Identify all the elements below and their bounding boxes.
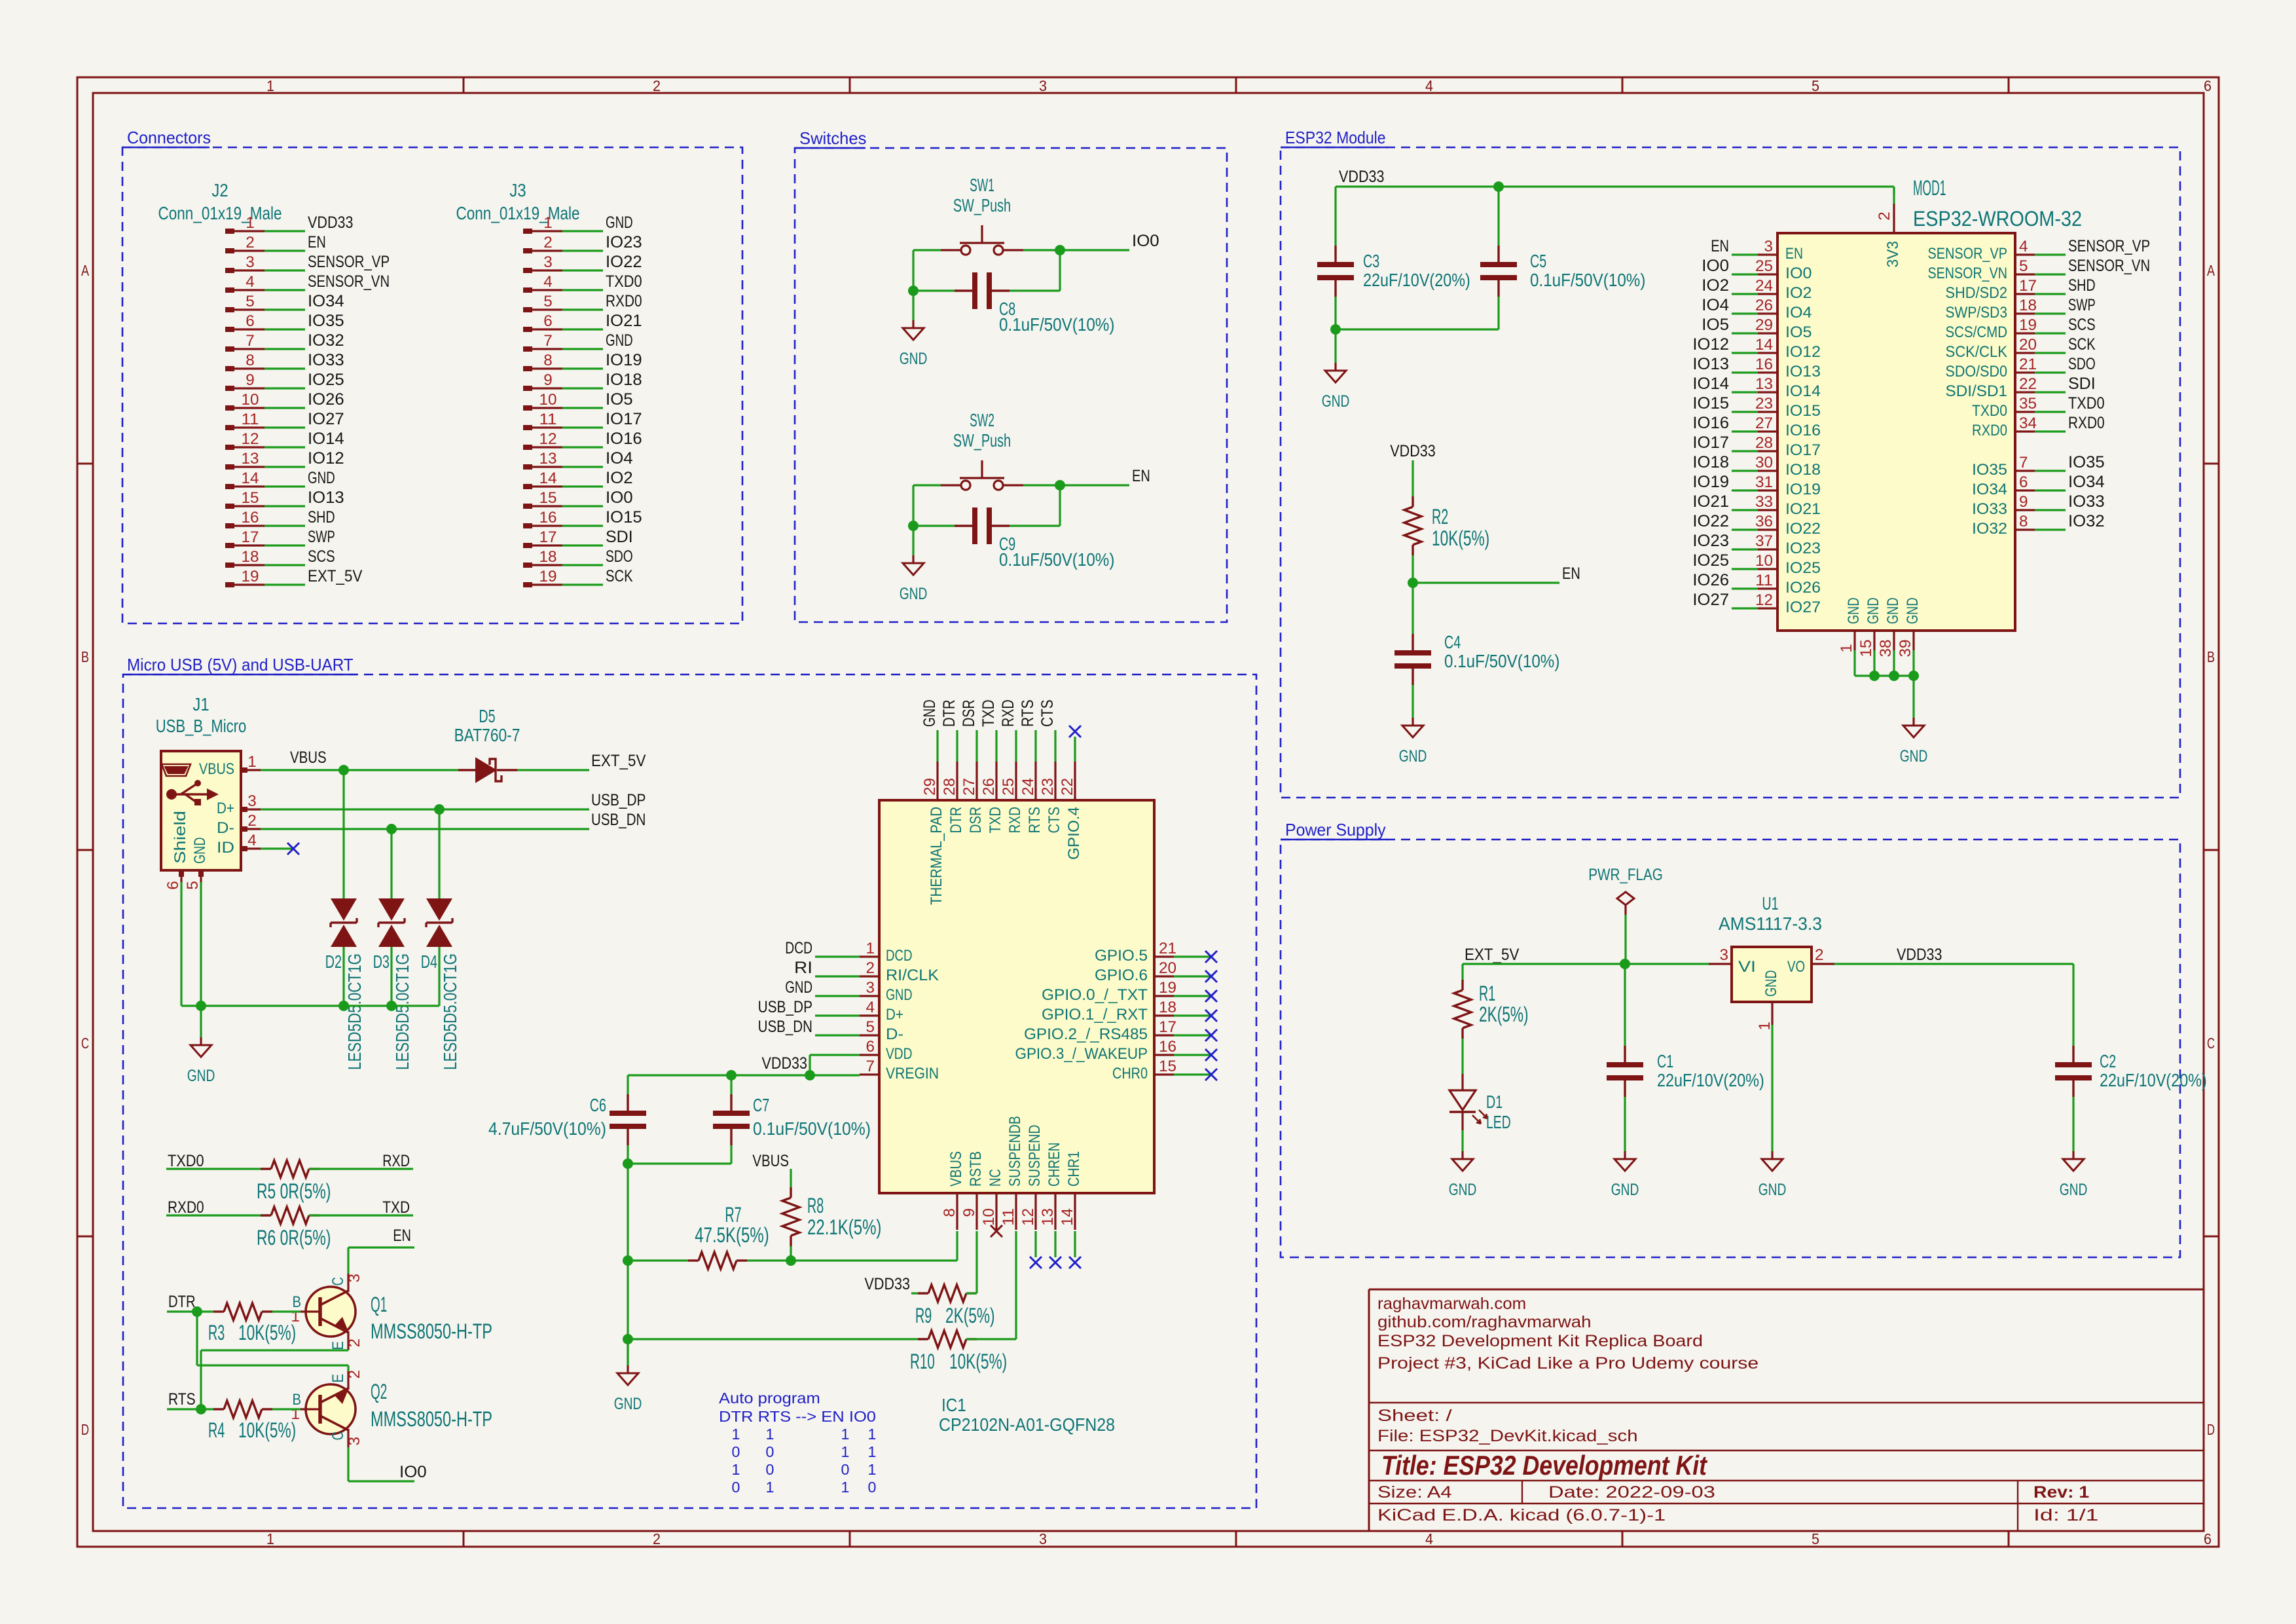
junction SW1 right — [1055, 245, 1065, 255]
wire/label RTS to IC1 pin 24 — [1019, 699, 1037, 762]
svg-text:IO14: IO14 — [308, 430, 344, 448]
wire/label SHD at MOD1 pin 17 — [2035, 276, 2096, 295]
IC1 bottom pin 12 SUSPEND — [1019, 1125, 1044, 1230]
ground GND (C2) — [2060, 1151, 2088, 1199]
wire/label TXD0 at MOD1 pin 35 — [2035, 394, 2105, 413]
svg-text:C6: C6 — [590, 1095, 606, 1115]
capacitor C3 22uF/10V(20%) — [1317, 246, 1470, 297]
svg-text:19: 19 — [242, 568, 259, 585]
ground GND (SW2) — [900, 555, 928, 603]
svg-text:Id: 1/1: Id: 1/1 — [2033, 1506, 2098, 1524]
svg-text:IO27: IO27 — [1785, 599, 1821, 616]
IC1 left pin 7 VREGIN — [860, 1058, 939, 1082]
net label IO27 at J2 pin 11 — [308, 410, 344, 428]
svg-text:15: 15 — [242, 489, 259, 507]
svg-text:GND: GND — [187, 1067, 215, 1085]
svg-text:Q2: Q2 — [371, 1380, 387, 1403]
wire R3 to Q1 base — [272, 1310, 301, 1312]
net label GND at J3 pin 7 — [606, 331, 633, 350]
wire J2 pin 3 to label SENSOR_VP — [264, 269, 305, 271]
svg-text:22uF/10V(20%): 22uF/10V(20%) — [1657, 1070, 1764, 1090]
svg-text:ID: ID — [217, 839, 234, 857]
junction SW2 right — [1055, 480, 1065, 490]
svg-text:IO34: IO34 — [1972, 481, 2007, 498]
svg-text:4: 4 — [246, 273, 255, 291]
wire shield/ground bus under J1 — [181, 882, 439, 1006]
net label SENSOR_VP at J2 pin 3 — [308, 253, 390, 271]
svg-text:13: 13 — [539, 450, 557, 468]
svg-text:SENSOR_VN: SENSOR_VN — [1928, 265, 2008, 282]
junction C3 bottom — [1330, 324, 1341, 335]
wire C2 to GND — [2072, 1097, 2074, 1151]
wire J2 pin 6 to label IO35 — [264, 328, 305, 330]
wire J2 pin 11 to label IO27 — [264, 426, 305, 428]
wire J2 pin 1 to label VDD33 — [264, 230, 305, 232]
svg-text:R5 0R(5%): R5 0R(5%) — [257, 1179, 331, 1203]
svg-text:29: 29 — [921, 778, 939, 796]
svg-text:IO15: IO15 — [1692, 394, 1729, 413]
svg-text:GPIO.4: GPIO.4 — [1065, 807, 1083, 860]
svg-text:C2: C2 — [2100, 1051, 2116, 1071]
svg-text:IO35: IO35 — [1972, 461, 2007, 479]
svg-text:USB_DP: USB_DP — [591, 791, 646, 809]
wire D4 to USB_DP — [438, 809, 440, 898]
svg-text:Power Supply: Power Supply — [1285, 820, 1386, 840]
wire EXT_5V rail to U1 VI — [1463, 963, 1709, 965]
svg-text:E: E — [329, 1374, 347, 1383]
svg-text:IO33: IO33 — [308, 351, 344, 369]
svg-text:10: 10 — [1755, 552, 1773, 570]
IC1 top pin 22 GPIO.4 — [1059, 762, 1083, 860]
MOD1 right pin 18 SWP/SD3 — [1946, 297, 2037, 322]
net label IO14 at J2 pin 12 — [308, 430, 344, 448]
svg-text:GND: GND — [886, 986, 913, 1004]
svg-text:Conn_01x19_Male: Conn_01x19_Male — [158, 203, 282, 223]
wire J3 pin 13 to label IO4 — [562, 466, 603, 468]
svg-text:Q1: Q1 — [371, 1293, 387, 1316]
svg-text:CHR0: CHR0 — [1112, 1065, 1148, 1082]
resistor R8 22.1K(5%) — [782, 1187, 881, 1246]
svg-text:30: 30 — [1755, 454, 1773, 471]
svg-text:17: 17 — [539, 528, 557, 546]
wire R7 line — [628, 1259, 791, 1261]
svg-text:8: 8 — [2019, 513, 2028, 530]
svg-text:19: 19 — [2019, 316, 2037, 334]
svg-text:VDD33: VDD33 — [1390, 442, 1436, 460]
svg-text:BAT760-7: BAT760-7 — [454, 725, 520, 745]
svg-text:DTR: DTR — [947, 807, 965, 834]
svg-text:SCK: SCK — [606, 567, 633, 585]
junction RTS — [196, 1404, 206, 1414]
svg-text:R8: R8 — [807, 1194, 824, 1217]
wire C5 top — [1497, 187, 1499, 246]
svg-text:IO21: IO21 — [1785, 500, 1821, 518]
IC1 bottom pin 11 SUSPENDB — [1000, 1116, 1024, 1230]
svg-text:Sheet: /: Sheet: / — [1377, 1407, 1452, 1425]
capacitor C9 0.1uF/50V(10%) — [955, 507, 1114, 570]
svg-text:Connectors: Connectors — [127, 128, 211, 147]
wire junction to IC1 pin8 — [791, 1231, 957, 1261]
wire J3 pin 7 to label GND — [562, 348, 603, 350]
svg-text:25: 25 — [1000, 778, 1017, 796]
svg-text:28: 28 — [941, 778, 958, 796]
svg-text:0.1uF/50V(10%): 0.1uF/50V(10%) — [999, 549, 1114, 570]
svg-text:Title: ESP32 Development Kit: Title: ESP32 Development Kit — [1381, 1450, 1708, 1481]
power label VDD33 (ESP32 decoupling) — [1339, 168, 1385, 186]
svg-text:IO2: IO2 — [1785, 284, 1812, 302]
svg-text:6: 6 — [246, 312, 255, 330]
transistor Q2 MMSS8050-H-TP — [291, 1370, 493, 1447]
capacitor C5 0.1uF/50V(10%) — [1480, 246, 1645, 297]
svg-text:6: 6 — [164, 881, 182, 890]
svg-text:IO33: IO33 — [1972, 500, 2007, 518]
wire ground trunk — [627, 1164, 629, 1365]
ground GND (J1) — [187, 1037, 215, 1085]
resistor R2 10K(5%) — [1404, 496, 1489, 555]
svg-text:3: 3 — [346, 1437, 363, 1446]
switch SW1 SW_Push — [941, 175, 1023, 255]
svg-text:C: C — [2207, 1035, 2215, 1052]
svg-text:19: 19 — [539, 568, 557, 585]
wire J2 pin 5 to label IO34 — [264, 308, 305, 310]
net label EN (R2/C4) — [1562, 564, 1580, 583]
svg-text:SDO/SD0: SDO/SD0 — [1946, 363, 2008, 380]
svg-text:Date: 2022-09-03: Date: 2022-09-03 — [1548, 1483, 1715, 1502]
wire J3 pin 11 to label IO17 — [562, 426, 603, 428]
junction VBUS / D2 — [338, 765, 349, 775]
wire/label EN to MOD1 pin 3 — [1711, 237, 1758, 255]
wire Q1 emitter cross-couple — [201, 1350, 348, 1409]
svg-text:VBUS: VBUS — [199, 760, 234, 778]
svg-text:15: 15 — [539, 489, 557, 507]
wire/label IO15 to MOD1 pin 23 — [1692, 394, 1758, 413]
note Auto program table — [719, 1390, 876, 1496]
svg-text:D: D — [81, 1421, 89, 1438]
svg-text:IO25: IO25 — [1692, 551, 1729, 570]
wire/label IO5 to MOD1 pin 29 — [1702, 316, 1758, 334]
svg-text:IO14: IO14 — [1785, 382, 1821, 400]
wire J2 pin 15 to label IO13 — [264, 505, 305, 507]
svg-text:TXD0: TXD0 — [2068, 394, 2105, 413]
wire USB_DP from J1 D+ — [261, 808, 589, 810]
wire VDD33 rail to module 3V3 — [1336, 187, 1894, 246]
wire/no-connect at IC1 pin 14 — [1069, 1231, 1081, 1268]
net label SDO at J3 pin 18 — [606, 547, 633, 566]
IC IC1 CP2102N-A01-GQFN28 body — [879, 800, 1154, 1435]
svg-text:38: 38 — [1877, 640, 1895, 657]
svg-text:1: 1 — [841, 1443, 850, 1460]
wire J3 pin 12 to label IO16 — [562, 446, 603, 448]
svg-text:IC1: IC1 — [941, 1395, 966, 1415]
svg-text:SUSPENDB: SUSPENDB — [1006, 1116, 1024, 1187]
svg-text:4: 4 — [247, 832, 257, 849]
wire MOD1 ground bus — [1855, 650, 1914, 676]
net label IO26 at J2 pin 10 — [308, 390, 344, 409]
svg-text:12: 12 — [1755, 591, 1773, 609]
svg-text:36: 36 — [1755, 513, 1773, 530]
svg-text:6: 6 — [2204, 1530, 2212, 1547]
net label SHD at J2 pin 16 — [308, 508, 335, 526]
svg-text:R6 0R(5%): R6 0R(5%) — [257, 1226, 331, 1249]
wire DTR to R3 — [167, 1310, 213, 1312]
svg-text:USB_B_Micro: USB_B_Micro — [156, 716, 247, 736]
svg-text:0: 0 — [841, 1461, 850, 1478]
svg-text:4.7uF/50V(10%): 4.7uF/50V(10%) — [488, 1118, 606, 1139]
wire J3 pin 4 to label TXD0 — [562, 289, 603, 291]
ground GND (C4) — [1399, 718, 1427, 766]
wire/label TXD to IC1 pin 26 — [979, 699, 998, 762]
svg-text:CP2102N-A01-GQFN28: CP2102N-A01-GQFN28 — [939, 1414, 1115, 1435]
svg-text:11: 11 — [1755, 572, 1773, 589]
svg-text:6: 6 — [2019, 473, 2028, 491]
svg-text:23: 23 — [1755, 395, 1773, 413]
svg-text:Switches: Switches — [799, 128, 866, 148]
svg-text:IO13: IO13 — [308, 489, 344, 507]
svg-text:C4: C4 — [1444, 632, 1461, 652]
svg-text:KiCad E.D.A. kicad (6.0.7-1)-: KiCad E.D.A. kicad (6.0.7-1)-1 — [1377, 1506, 1666, 1524]
svg-text:18: 18 — [2019, 297, 2037, 314]
junction D3 bottom — [386, 1001, 397, 1011]
svg-text:31: 31 — [1755, 473, 1773, 491]
svg-text:IO23: IO23 — [606, 233, 642, 251]
svg-text:26: 26 — [980, 778, 998, 796]
wire/label IO2 to MOD1 pin 24 — [1702, 276, 1758, 295]
junction D2 bottom — [338, 1001, 349, 1011]
svg-text:SCK: SCK — [2068, 335, 2096, 354]
svg-text:18: 18 — [1159, 999, 1176, 1016]
title block — [1369, 1289, 2204, 1531]
svg-text:1: 1 — [543, 214, 553, 232]
wire/label IO4 to MOD1 pin 26 — [1702, 296, 1758, 314]
junction VDD pin branch — [805, 1070, 815, 1080]
MOD1 right pin 5 SENSOR_VN — [1928, 257, 2035, 282]
svg-text:19: 19 — [1159, 979, 1176, 997]
svg-text:IO34: IO34 — [2068, 473, 2105, 491]
svg-text:SCS/CMD: SCS/CMD — [1946, 323, 2008, 341]
svg-text:IO15: IO15 — [1785, 402, 1821, 420]
svg-text:SW2: SW2 — [970, 410, 994, 430]
wire/label SDO at MOD1 pin 21 — [2035, 355, 2096, 373]
svg-text:IO2: IO2 — [606, 469, 633, 487]
svg-text:RXD: RXD — [999, 699, 1017, 727]
net label TXD — [382, 1198, 410, 1217]
wire/label USB_DP to IC1 pin 4 — [758, 998, 860, 1016]
wire/label IO23 to MOD1 pin 37 — [1692, 532, 1758, 550]
svg-text:SWP/SD3: SWP/SD3 — [1946, 304, 2008, 322]
transistor Q1 MMSS8050-H-TP — [291, 1274, 493, 1350]
junction R7 trunk — [623, 1255, 633, 1266]
resistor R9 2K(5%) — [915, 1285, 995, 1327]
svg-text:IO4: IO4 — [1702, 296, 1729, 314]
svg-text:NC: NC — [987, 1169, 1004, 1187]
MOD1 bottom pin 15 GND — [1857, 598, 1882, 657]
svg-text:25: 25 — [1755, 257, 1773, 275]
wire J2 pin 12 to label IO14 — [264, 446, 305, 448]
MOD1 left pin 3 EN — [1758, 238, 1803, 263]
svg-text:SDO: SDO — [606, 547, 633, 566]
wire J2 pin 16 to label SHD — [264, 525, 305, 526]
svg-text:J2: J2 — [211, 180, 228, 200]
svg-text:3V3: 3V3 — [1884, 241, 1902, 268]
svg-text:0: 0 — [732, 1443, 740, 1460]
wire J3 pin 15 to label IO0 — [562, 505, 603, 507]
svg-text:EN: EN — [1711, 237, 1729, 255]
svg-text:17: 17 — [2019, 277, 2037, 295]
junction ground bus 38 — [1869, 671, 1880, 681]
svg-text:TXD0: TXD0 — [168, 1152, 204, 1170]
net label DTR — [168, 1293, 196, 1311]
wire/no-connect at IC1 pin 18 — [1174, 1010, 1217, 1022]
svg-text:3: 3 — [1039, 1530, 1047, 1547]
svg-text:IO32: IO32 — [308, 331, 344, 350]
svg-text:15: 15 — [1857, 640, 1875, 657]
svg-text:22: 22 — [2019, 375, 2037, 393]
junction EN node — [1408, 578, 1418, 588]
svg-text:0.1uF/50V(10%): 0.1uF/50V(10%) — [1444, 651, 1559, 671]
regulator U1 AMS1117-3.3 body — [1709, 893, 1834, 1031]
svg-text:RI: RI — [794, 959, 812, 977]
svg-text:22uF/10V(20%): 22uF/10V(20%) — [2100, 1070, 2207, 1090]
svg-text:39: 39 — [1897, 640, 1914, 657]
svg-text:21: 21 — [1159, 940, 1176, 957]
svg-text:3: 3 — [346, 1274, 363, 1283]
svg-text:EXT_5V: EXT_5V — [308, 567, 363, 585]
net label EXT_5V at J2 pin 19 — [308, 567, 363, 585]
net label GND at J3 pin 1 — [606, 213, 633, 232]
net label VDD33 (R9) — [865, 1275, 911, 1293]
net label EN (SW2) — [1132, 467, 1150, 485]
svg-text:R9: R9 — [915, 1304, 932, 1327]
svg-text:GPIO.3_/_WAKEUP: GPIO.3_/_WAKEUP — [1015, 1045, 1148, 1063]
wire J3 pin 5 to label RXD0 — [562, 308, 603, 310]
svg-text:SWP: SWP — [308, 528, 335, 546]
IC1 top pin 24 RTS — [1019, 762, 1044, 834]
svg-text:D: D — [2207, 1421, 2215, 1438]
capacitor C8 0.1uF/50V(10%) — [955, 272, 1114, 335]
svg-text:IO33: IO33 — [2068, 492, 2105, 511]
svg-text:GND: GND — [1758, 1181, 1787, 1199]
junction EXT_5V / C1 — [1620, 959, 1630, 969]
svg-text:IO27: IO27 — [308, 410, 344, 428]
net label IO12 at J2 pin 13 — [308, 449, 344, 468]
svg-text:TXD: TXD — [987, 807, 1004, 834]
svg-text:0.1uF/50V(10%): 0.1uF/50V(10%) — [753, 1118, 871, 1139]
svg-text:IO26: IO26 — [1692, 571, 1729, 589]
svg-text:1: 1 — [1838, 644, 1855, 653]
svg-text:29: 29 — [1755, 316, 1773, 334]
net label IO15 at J3 pin 16 — [606, 508, 642, 526]
svg-text:IO16: IO16 — [1692, 414, 1729, 432]
wire/label IO19 to MOD1 pin 31 — [1692, 473, 1758, 491]
wire VDD pin 6 branch — [810, 1055, 860, 1075]
resistor R1 2K(5%) — [1454, 980, 1529, 1039]
wire/label SCS at MOD1 pin 19 — [2035, 316, 2096, 334]
svg-text:LESD5D5.0CT1G: LESD5D5.0CT1G — [344, 953, 365, 1070]
svg-text:GPIO.5: GPIO.5 — [1095, 947, 1148, 965]
wire J3 pin 10 to label IO5 — [562, 407, 603, 409]
wire/label IO12 to MOD1 pin 14 — [1692, 335, 1758, 354]
svg-text:10K(5%): 10K(5%) — [238, 1418, 296, 1442]
svg-text:GND: GND — [1399, 747, 1427, 766]
svg-text:AMS1117-3.3: AMS1117-3.3 — [1719, 913, 1822, 934]
svg-text:1: 1 — [868, 1461, 877, 1478]
svg-text:SHD: SHD — [308, 508, 335, 526]
wire/label IO0 to MOD1 pin 25 — [1702, 257, 1758, 275]
wire/no-connect at IC1 pin 19 — [1174, 990, 1217, 1002]
wire/label IO35 at MOD1 pin 7 — [2035, 453, 2105, 471]
wire to GND (SW2) — [912, 526, 914, 555]
svg-text:Shield: Shield — [172, 811, 189, 864]
svg-text:8: 8 — [941, 1208, 958, 1217]
net label SWP at J2 pin 17 — [308, 528, 335, 546]
svg-text:EXT_5V: EXT_5V — [1465, 946, 1520, 964]
net label IO5 at J3 pin 10 — [606, 390, 633, 409]
svg-text:24: 24 — [1755, 277, 1773, 295]
MOD1 left pin 11 IO26 — [1755, 572, 1821, 597]
svg-text:IO4: IO4 — [1785, 304, 1812, 322]
junction R8 bottom — [786, 1255, 796, 1266]
svg-text:IO22: IO22 — [606, 253, 642, 271]
svg-text:GND: GND — [1904, 598, 1922, 625]
wire J3 pin 18 to label SDO — [562, 564, 603, 566]
MOD1 right pin 19 SCS/CMD — [1946, 316, 2037, 341]
svg-text:IO0: IO0 — [1702, 257, 1729, 275]
diode D4 LESD5D5.0CT1G — [421, 898, 460, 1070]
wire/label SENSOR_VN at MOD1 pin 5 — [2035, 257, 2150, 275]
svg-text:IO17: IO17 — [1785, 441, 1821, 459]
MOD1 left pin 14 IO12 — [1755, 336, 1821, 361]
module MOD1 ESP32-WROOM-32 body — [1777, 176, 2082, 631]
svg-text:EN: EN — [1562, 564, 1580, 583]
svg-text:34: 34 — [2019, 415, 2037, 432]
wire/label RXD0 at MOD1 pin 34 — [2035, 414, 2105, 432]
svg-text:2: 2 — [653, 77, 661, 94]
svg-text:2: 2 — [543, 234, 553, 251]
svg-text:GND: GND — [1900, 747, 1928, 766]
svg-text:R1: R1 — [1479, 982, 1495, 1005]
svg-text:VBUS: VBUS — [947, 1151, 965, 1187]
svg-text:SUSPEND: SUSPEND — [1026, 1125, 1044, 1187]
svg-text:GND: GND — [920, 699, 939, 727]
svg-text:5: 5 — [246, 293, 255, 310]
ground GND (IC1 section) — [614, 1365, 642, 1413]
svg-text:28: 28 — [1755, 434, 1773, 452]
ground GND (U1) — [1758, 1151, 1787, 1199]
svg-text:IO16: IO16 — [606, 430, 642, 448]
net label SCK at J3 pin 19 — [606, 567, 633, 585]
svg-text:IO15: IO15 — [606, 508, 642, 526]
MOD1 left pin 10 IO25 — [1755, 552, 1821, 577]
svg-text:TXD: TXD — [979, 699, 998, 727]
svg-text:4: 4 — [543, 273, 553, 291]
svg-text:USB_DN: USB_DN — [591, 811, 646, 829]
wire trunk to GND (IC1) — [627, 1339, 629, 1365]
svg-text:9: 9 — [246, 371, 255, 389]
net label IO22 at J3 pin 3 — [606, 253, 642, 271]
svg-text:13: 13 — [242, 450, 259, 468]
svg-text:3: 3 — [1720, 946, 1729, 964]
svg-text:SCK/CLK: SCK/CLK — [1946, 343, 2008, 361]
svg-text:IO35: IO35 — [308, 312, 344, 330]
junction C7 top — [726, 1070, 737, 1080]
power flag PWR_FLAG — [1588, 866, 1663, 915]
svg-text:4: 4 — [2019, 238, 2028, 255]
svg-text:ESP32 Module: ESP32 Module — [1285, 128, 1386, 147]
diode D3 LESD5D5.0CT1G — [373, 898, 412, 1070]
wire U1 GND down — [1771, 1025, 1773, 1151]
net label TXD0 (R5) — [168, 1152, 204, 1170]
MOD1 bottom pin 1 GND — [1838, 598, 1863, 653]
